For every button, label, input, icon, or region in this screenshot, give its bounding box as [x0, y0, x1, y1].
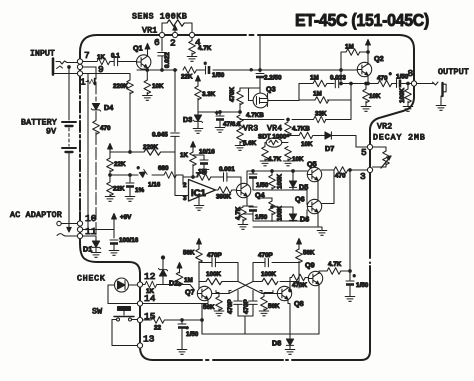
- svg-text:22K: 22K: [181, 74, 193, 81]
- svg-text:2: 2: [183, 182, 187, 189]
- svg-text:CHECK: CHECK: [77, 275, 105, 284]
- svg-text:D7: D7: [325, 144, 334, 153]
- resistor 100K left: [199, 278, 238, 285]
- svg-text:0.1: 0.1: [111, 53, 120, 60]
- svg-text:+: +: [215, 110, 219, 117]
- junction dots rail: [146, 69, 149, 72]
- transistor Q1: [137, 55, 151, 69]
- svg-text:390K: 390K: [216, 194, 232, 201]
- capacitor 1% lower: [125, 175, 135, 201]
- resistor 100K right: [253, 278, 299, 285]
- svg-text:Q8: Q8: [294, 299, 304, 308]
- Q6 collector to 470: [321, 170, 334, 204]
- output jack J3: [417, 82, 447, 110]
- resistor 220K upper: [127, 80, 134, 152]
- wire rail y70: [137, 69, 260, 71]
- svg-text:1M: 1M: [345, 44, 354, 51]
- resistor 470K Q3 bias: [237, 88, 244, 112]
- resistor 470K Q9 base: [289, 274, 309, 292]
- resistor 1K check: [143, 281, 163, 288]
- capacitor 10/16: [193, 155, 209, 174]
- node 8: [411, 81, 416, 86]
- board outline: lower-left: [80, 212, 202, 360]
- Q4 emitter branch: [238, 196, 253, 229]
- svg-text:3: 3: [183, 195, 187, 202]
- svg-text:Q7: Q7: [185, 288, 195, 297]
- svg-text:4.7KB: 4.7KB: [292, 126, 310, 133]
- svg-text:*: *: [204, 62, 207, 69]
- battery to adaptor arrow: [67, 227, 71, 232]
- svg-text:SW: SW: [92, 308, 102, 317]
- diode D6: [271, 206, 297, 222]
- node mid: [77, 227, 82, 232]
- pushbutton switch SW: [112, 307, 138, 346]
- svg-text:Q9: Q9: [305, 261, 315, 270]
- resistor 10K Q2: [361, 82, 371, 111]
- svg-text:100/16: 100/16: [119, 237, 139, 244]
- node 7: [77, 59, 82, 64]
- svg-text:1/50: 1/50: [256, 182, 269, 189]
- resistor 10K Q1: [143, 70, 153, 100]
- svg-text:4.7K: 4.7K: [268, 156, 282, 163]
- svg-text:*: *: [137, 166, 140, 173]
- svg-text:VR2: VR2: [377, 123, 392, 132]
- resistor 1K IC1 bias: [190, 142, 197, 178]
- svg-text:7: 7: [196, 172, 200, 179]
- resistor 390K: [218, 187, 232, 194]
- svg-text:10K: 10K: [369, 93, 381, 100]
- Q5 emitter to Q6: [317, 180, 319, 201]
- wire Q4 base row lower y206: [253, 210, 307, 221]
- diode D7: [325, 132, 331, 139]
- svg-text:10/16: 10/16: [199, 149, 215, 156]
- wire node11 row: [83, 230, 96, 241]
- resistor 4.7K coupler: [260, 146, 270, 166]
- svg-text:4.7K: 4.7K: [328, 261, 342, 268]
- svg-text:220K: 220K: [113, 83, 129, 90]
- svg-text:22K: 22K: [113, 186, 125, 193]
- Q3 gate loop: [240, 88, 260, 112]
- wire node5 left: [356, 146, 367, 148]
- svg-text:470: 470: [100, 125, 111, 132]
- svg-text:100K: 100K: [399, 87, 406, 103]
- svg-text:4.7K: 4.7K: [198, 45, 212, 52]
- resistor 1M coupling: [313, 80, 327, 87]
- board outline: left edge dash-dot: [79, 82, 81, 212]
- svg-text:Q1: Q1: [133, 44, 143, 53]
- svg-text:4.7K: 4.7K: [235, 206, 242, 220]
- svg-text:680: 680: [158, 165, 169, 172]
- resistor 3.3K: [195, 76, 202, 113]
- capacitor 100/16: [109, 230, 119, 256]
- svg-text:0.001: 0.001: [219, 166, 235, 173]
- svg-text:INPUT: INPUT: [30, 50, 55, 59]
- transistor Q5: [307, 167, 321, 181]
- wire D3 row y112: [198, 111, 240, 113]
- svg-text:22: 22: [154, 325, 162, 332]
- svg-text:1K: 1K: [97, 54, 106, 61]
- svg-text:10K: 10K: [152, 83, 164, 90]
- potentiometer VR2: [373, 147, 391, 168]
- wire node15 row: [143, 319, 202, 321]
- svg-text:470: 470: [335, 173, 346, 180]
- wire y303 node14: [143, 304, 202, 335]
- capacitor 1/50 Q4 emitter: [243, 206, 257, 214]
- svg-text:9: 9: [98, 64, 104, 75]
- wire 680 row y175: [110, 175, 183, 185]
- flip-flop +9V arrow right: [297, 239, 302, 250]
- wire node9 row: [83, 66, 96, 68]
- rail y70 to Q2 base: [260, 69, 357, 71]
- svg-text:D8: D8: [272, 339, 281, 348]
- board outline: top edge: [80, 35, 414, 360]
- board outline: bottom edge: [213, 359, 283, 361]
- svg-text:56K: 56K: [268, 303, 280, 310]
- resistor 470 Q5: [334, 167, 348, 174]
- transistor Q6: [307, 199, 321, 213]
- capacitor 47/6.3: [215, 111, 225, 133]
- wire D2 row to Q7: [179, 285, 194, 290]
- node 1: [77, 71, 82, 76]
- svg-text:1/50: 1/50: [212, 72, 225, 79]
- Q7 emitter: [202, 300, 208, 304]
- resistor 1M mid: [315, 97, 329, 104]
- svg-text:Q5: Q5: [307, 160, 317, 169]
- resistor 1M feedback: [197, 174, 211, 181]
- capacitor 0.001: [224, 173, 227, 181]
- node 3: [367, 167, 372, 172]
- node 14: [137, 301, 142, 306]
- pad 1 stub resistor: [86, 79, 95, 85]
- node 15: [137, 317, 142, 322]
- svg-text:AC ADAPTOR: AC ADAPTOR: [10, 211, 62, 220]
- wire Q4-Q5 top row y171: [247, 170, 307, 172]
- svg-text:100K: 100K: [277, 205, 284, 221]
- svg-text:11: 11: [85, 226, 97, 237]
- svg-text:OUTPUT: OUTPUT: [438, 68, 469, 77]
- svg-text:VR3: VR3: [243, 125, 258, 134]
- battery B1: [62, 122, 76, 228]
- capacitor 470P left: [199, 258, 238, 277]
- bottom rail y334: [202, 318, 290, 334]
- diode D4: [91, 104, 100, 112]
- svg-text:D4: D4: [104, 103, 113, 112]
- transistor Q3 FET: [253, 93, 299, 108]
- svg-text:1M: 1M: [184, 277, 193, 284]
- Q2 emitter to row: [367, 75, 369, 84]
- svg-text:56K: 56K: [303, 250, 315, 257]
- svg-text:9V: 9V: [46, 128, 56, 137]
- svg-text:*: *: [250, 68, 253, 75]
- Q1 emitter to rail: [146, 68, 148, 71]
- AC adaptor jack J2: [57, 221, 77, 236]
- capacitor 470P vert2: [249, 291, 257, 317]
- transistor Q8: [277, 286, 291, 300]
- ground D1: [91, 253, 101, 258]
- resistor 56K lower-left: [214, 291, 224, 316]
- svg-text:0.045: 0.045: [152, 132, 168, 139]
- resistor 220K mid: [144, 149, 161, 156]
- svg-text:1/50: 1/50: [255, 214, 268, 221]
- wire input sleeve row: [83, 74, 130, 81]
- +9V arrow node11: [88, 214, 116, 230]
- svg-text:1K: 1K: [146, 288, 155, 295]
- transistor Q2: [357, 62, 371, 76]
- resistor 100K upper: [269, 171, 276, 190]
- node 6: [159, 32, 164, 37]
- svg-text:IC1: IC1: [191, 188, 207, 199]
- svg-text:220K: 220K: [143, 144, 159, 151]
- svg-text:470P: 470P: [243, 299, 250, 314]
- Q2 collector +9V arrow: [366, 40, 371, 65]
- svg-text:+9V: +9V: [120, 214, 132, 221]
- resistor 470 Q2: [378, 80, 392, 87]
- node 4: [189, 32, 194, 37]
- wire y320 to rail: [201, 320, 203, 334]
- svg-text:ET-45C (151-045C): ET-45C (151-045C): [295, 10, 429, 30]
- node 13: [137, 343, 142, 348]
- svg-text:2: 2: [170, 38, 176, 49]
- svg-text:470: 470: [377, 75, 388, 82]
- svg-text:10K: 10K: [301, 141, 313, 148]
- Q4 collector wire: [246, 171, 248, 185]
- svg-text:10K: 10K: [292, 156, 304, 163]
- svg-text:0.033: 0.033: [330, 75, 346, 82]
- Q6 emitter down: [317, 212, 319, 227]
- cross coupling wires: [212, 277, 282, 294]
- svg-text:VR4: VR4: [267, 125, 282, 134]
- input jack J1: [53, 59, 77, 75]
- op-amp IC1: [175, 175, 216, 210]
- svg-text:VR1: VR1: [142, 27, 157, 36]
- svg-text:2.2/50: 2.2/50: [264, 75, 282, 82]
- svg-text:7: 7: [84, 50, 90, 61]
- Q1 collector +9V arrow: [145, 44, 150, 55]
- svg-text:*: *: [353, 274, 356, 281]
- wire 1M mid row y100: [299, 84, 351, 120]
- Q8 emitter: [288, 300, 290, 339]
- wire Q1 base row: [83, 61, 137, 63]
- svg-text:470P: 470P: [258, 252, 273, 259]
- resistor 33K: [314, 116, 326, 123]
- resistor 470: [93, 121, 100, 135]
- node 10: [77, 221, 82, 226]
- resistor 1K: [97, 58, 110, 65]
- svg-text:1K: 1K: [180, 152, 189, 159]
- node 2: [172, 32, 177, 37]
- right bus x350: [349, 170, 351, 280]
- svg-text:10: 10: [85, 213, 97, 224]
- wire Q2 row y83.5: [299, 83, 411, 85]
- svg-text:Q3: Q3: [266, 85, 276, 94]
- svg-text:1M: 1M: [310, 75, 319, 82]
- photocoupler SDT1000: [265, 138, 288, 147]
- resistor 22K lower-left: [105, 175, 115, 201]
- wire 220K row y152: [110, 151, 175, 153]
- svg-text:8: 8: [408, 68, 414, 79]
- wire D7 row y135.5: [288, 136, 356, 148]
- svg-text:3.3K: 3.3K: [202, 91, 216, 98]
- capacitor 1/50 sw: [177, 319, 187, 355]
- capacitor 0.045: [171, 70, 179, 175]
- Q9 collector resistor 4.7K: [319, 268, 350, 275]
- capacitor 1/50 Q9: [345, 281, 355, 301]
- capacitor 1/50 rail: [206, 66, 211, 74]
- wire flip-flop bottom: [238, 316, 253, 318]
- Q9 emitter down: [290, 284, 319, 334]
- svg-text:SDT 1000: SDT 1000: [258, 134, 287, 141]
- node 11: [77, 233, 82, 238]
- LED check indicator: [108, 278, 138, 304]
- svg-text:470P: 470P: [207, 252, 222, 259]
- svg-text:Q2: Q2: [374, 54, 384, 63]
- svg-text:5.6K: 5.6K: [243, 140, 257, 147]
- battery feed wire: [68, 67, 70, 120]
- svg-text:1%: 1%: [135, 187, 145, 194]
- resistor 22: [151, 317, 164, 324]
- svg-text:0.022: 0.022: [164, 52, 171, 68]
- capacitor 470P vert1: [234, 291, 242, 317]
- diode with star: [137, 166, 147, 178]
- svg-text:100K: 100K: [261, 271, 277, 278]
- svg-text:1/50: 1/50: [186, 331, 199, 338]
- wire node3 to Q5: [322, 169, 368, 171]
- svg-text:470K: 470K: [229, 86, 236, 102]
- svg-text:D3: D3: [183, 115, 192, 124]
- diode D2 zener: [158, 256, 167, 285]
- svg-text:470P: 470P: [227, 299, 234, 314]
- resistor 1M D2: [163, 263, 183, 286]
- flip-flop +9V arrow left: [197, 239, 202, 250]
- svg-text:1: 1: [80, 77, 86, 88]
- svg-text:1M: 1M: [313, 91, 322, 98]
- svg-text:6: 6: [154, 37, 160, 48]
- transistor Q7: [197, 286, 211, 300]
- node 5: [367, 144, 372, 149]
- capacitor 0.033: [335, 79, 338, 87]
- svg-text:100K: 100K: [206, 271, 222, 278]
- wire IC1 feedback row y177: [183, 177, 241, 189]
- potentiometer VR1: [162, 20, 192, 35]
- svg-text:5: 5: [361, 147, 367, 158]
- wire IC1 output: [216, 189, 237, 191]
- potentiometer VR4: [285, 122, 292, 136]
- svg-text:100K: 100K: [277, 173, 284, 189]
- resistor 22K rail: [183, 67, 196, 74]
- capacitor 470P right: [253, 258, 299, 277]
- transistor Q9: [308, 271, 322, 285]
- resistor 1M top: [340, 49, 370, 85]
- diode D5: [289, 171, 296, 190]
- svg-text:13: 13: [143, 334, 155, 345]
- wire VR row y120: [240, 119, 351, 121]
- potentiometer VR3: [235, 115, 245, 150]
- svg-text:BATTERY: BATTERY: [21, 119, 57, 128]
- board outline: right edge: [369, 147, 371, 258]
- svg-text:33K: 33K: [315, 111, 327, 118]
- svg-text:DECAY 2MB: DECAY 2MB: [373, 134, 425, 143]
- resistor 680: [164, 172, 176, 179]
- capacitor 1/50 Q2: [397, 80, 402, 88]
- capacitor 2.2/50: [256, 35, 264, 93]
- capacitor 1/50 lower: [271, 205, 273, 207]
- resistor 22K upper-left: [107, 154, 114, 175]
- diode D1: [91, 240, 100, 252]
- svg-text:56K: 56K: [183, 250, 195, 257]
- wire y190 join: [253, 190, 307, 205]
- svg-text:*: *: [389, 72, 392, 79]
- svg-text:4.7KB: 4.7KB: [246, 112, 264, 119]
- diode D8: [285, 339, 295, 354]
- capacitor 1/50 upper: [249, 171, 257, 190]
- node 12: [137, 282, 142, 287]
- svg-text:12: 12: [144, 271, 156, 282]
- svg-text:22K: 22K: [114, 161, 126, 168]
- resistor 56K right: [296, 248, 303, 288]
- svg-text:3: 3: [360, 171, 366, 182]
- resistor 56K left: [196, 248, 203, 288]
- wire y227 bottom row: [253, 227, 322, 230]
- +9V arrow 22K column: [108, 144, 113, 155]
- capacitor 0.022: [158, 38, 166, 70]
- svg-text:1/50: 1/50: [356, 282, 369, 289]
- resistor 10K VR4 leg: [283, 147, 293, 166]
- resistor 100K Q2: [403, 82, 413, 111]
- svg-text:470K: 470K: [292, 282, 308, 289]
- capacitor 0.1: [114, 57, 117, 65]
- transistor Q4: [236, 183, 250, 197]
- resistor 10K D7 row: [299, 132, 313, 139]
- svg-text:D6: D6: [300, 215, 309, 224]
- wire x88 drop: [87, 74, 89, 230]
- svg-text:Q6: Q6: [295, 195, 305, 204]
- resistor 56K lower-right: [259, 291, 273, 316]
- resistor 4.7K node4: [187, 38, 197, 62]
- diode D3 zener: [193, 112, 203, 133]
- wire x96 drop / D4 column: [95, 67, 97, 236]
- node 9: [77, 64, 82, 69]
- svg-text:56K: 56K: [203, 304, 215, 311]
- svg-text:1/16: 1/16: [148, 182, 161, 189]
